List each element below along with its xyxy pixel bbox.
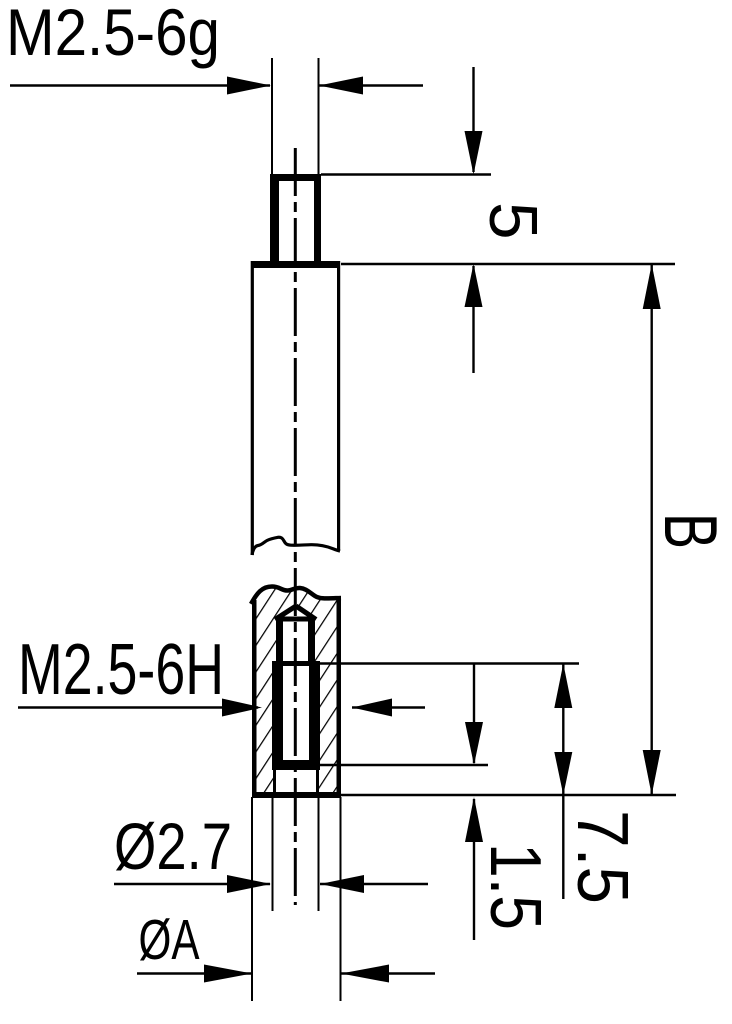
arrowhead 2.7 right — [320, 875, 364, 893]
shoulder edge of shaft — [251, 261, 341, 268]
socket bottom edge — [252, 792, 341, 798]
tapped hole upper right bar — [308, 622, 315, 664]
dimension line B — [651, 264, 653, 795]
dimension line M2.5-6H right segment — [352, 706, 425, 708]
counterbore white bottom — [274, 770, 319, 792]
threaded stub left wall — [270, 174, 279, 262]
extension line shoulder (5 dim / B dim) — [341, 263, 675, 265]
tapped hole lower left bar — [272, 663, 283, 765]
arrowhead 5 bottom — [465, 264, 483, 307]
dimension line 5 lower tail — [472, 266, 474, 373]
socket top break line — [251, 587, 341, 605]
svg-text:Ø2.7: Ø2.7 — [114, 809, 232, 883]
drill cone right side — [296, 606, 316, 620]
dimension line diameter 2.7 right segment — [320, 883, 428, 885]
svg-text:ØA: ØA — [139, 908, 200, 972]
tapped hole white lower — [272, 663, 320, 770]
drill cone left side — [275, 606, 296, 620]
svg-text:M2.5-6H: M2.5-6H — [18, 630, 224, 710]
dimension line diameter A left segment — [137, 972, 251, 974]
dimension line diameter A right segment — [341, 972, 435, 974]
extension line stub top (5 dim) — [321, 173, 491, 175]
dimension line 7.5 — [562, 664, 564, 900]
arrowhead 2.7 left — [227, 875, 271, 893]
arrowhead A right — [341, 965, 389, 983]
arrowhead 5 top — [465, 131, 483, 175]
svg-text:5: 5 — [475, 202, 550, 240]
tapped hole white upper — [276, 616, 315, 663]
tapped hole lower right bar — [309, 663, 320, 765]
arrowhead 1.5 lower — [465, 797, 483, 842]
centerline — [294, 148, 297, 905]
socket hatch fill — [256, 588, 337, 792]
shaft left wall — [251, 268, 254, 555]
extension line hole bottom (1.5 dim top) — [320, 764, 488, 766]
arrowhead 7.5 bottom — [554, 752, 572, 795]
svg-text:B: B — [649, 513, 732, 549]
arrowhead A left — [204, 965, 252, 983]
arrowhead M2.5-6g left — [227, 77, 271, 95]
arrowhead B top — [643, 264, 661, 309]
svg-text:7.5: 7.5 — [562, 810, 642, 904]
drill cone white interior — [273, 605, 318, 621]
shaft right wall — [337, 268, 340, 551]
tapped hole upper left bar — [276, 622, 283, 664]
arrowhead M2.5-6H right — [352, 699, 392, 717]
extension line A left — [251, 797, 253, 1001]
tapped hole bottom bar — [272, 760, 320, 770]
socket right wall — [337, 596, 342, 792]
dimension line M2.5-6g left segment — [10, 84, 270, 86]
counterbore right line — [316, 770, 319, 792]
tapped hole top bar — [276, 617, 315, 622]
arrowhead M2.5-6g right — [319, 77, 363, 95]
extension line A right — [340, 797, 342, 1001]
arrowhead M2.5-6H left — [222, 699, 262, 717]
dimension line 1.5 lower tail — [473, 799, 475, 940]
extension line left of stub thread — [271, 58, 273, 176]
threaded stub right wall — [314, 174, 321, 262]
svg-text:M2.5-6g: M2.5-6g — [6, 0, 220, 69]
extension line 2.7 right — [318, 797, 320, 911]
shaft break line — [252, 537, 340, 555]
arrowhead 1.5 upper — [465, 722, 483, 765]
counterbore left line — [273, 770, 276, 792]
socket left wall — [252, 600, 257, 792]
dimension line M2.5-6g right segment — [319, 84, 423, 86]
threaded stub top edge — [270, 174, 321, 181]
dimension line 1.5 upper tail — [473, 664, 475, 764]
arrowhead B bottom — [643, 750, 661, 795]
arrowhead 7.5 top — [554, 664, 572, 709]
dimension line M2.5-6H left segment — [18, 706, 258, 708]
dimension line 5 upper tail — [472, 67, 474, 172]
extension line 2.7 left — [272, 797, 274, 911]
tapped hole crossbar — [272, 661, 320, 666]
svg-text:1.5: 1.5 — [475, 843, 555, 930]
extension line socket bottom (7.5/1.5 dim bottom) — [341, 794, 676, 796]
dimension line diameter 2.7 left segment — [114, 883, 270, 885]
extension line right of stub thread — [318, 58, 320, 176]
extension line thread depth (7.5 dim top) — [272, 662, 579, 664]
